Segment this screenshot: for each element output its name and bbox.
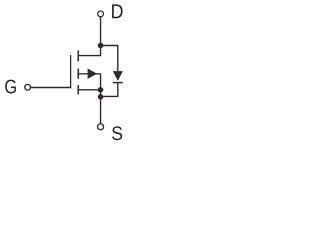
wire body stub <box>79 73 101 75</box>
wire drain stub <box>79 48 101 55</box>
node source-stub junction <box>98 87 104 93</box>
wire drain to diode top <box>101 46 118 72</box>
wire source stub <box>79 89 101 91</box>
wire drain vertical from D terminal <box>100 17 102 46</box>
body diode D1 cathode bar <box>113 82 123 84</box>
terminal S (open circle) <box>98 124 104 130</box>
wire source vertical <box>100 74 102 124</box>
label G <box>5 80 16 94</box>
channel plate middle <box>78 69 80 79</box>
terminal G (open circle) <box>25 84 31 90</box>
node diode-return junction <box>98 94 104 100</box>
label S <box>112 126 122 140</box>
body diode D1 anode triangle <box>113 71 123 81</box>
node drain junction <box>98 43 104 49</box>
channel plate bottom <box>78 85 80 94</box>
channel plate top <box>78 50 80 61</box>
wire diode bottom <box>101 83 118 96</box>
body arrow (points right, p-channel) <box>88 69 98 79</box>
gate line vertical <box>70 55 72 88</box>
wire gate horizontal <box>31 87 71 89</box>
label D <box>112 4 122 18</box>
terminal D (open circle) <box>98 11 104 17</box>
